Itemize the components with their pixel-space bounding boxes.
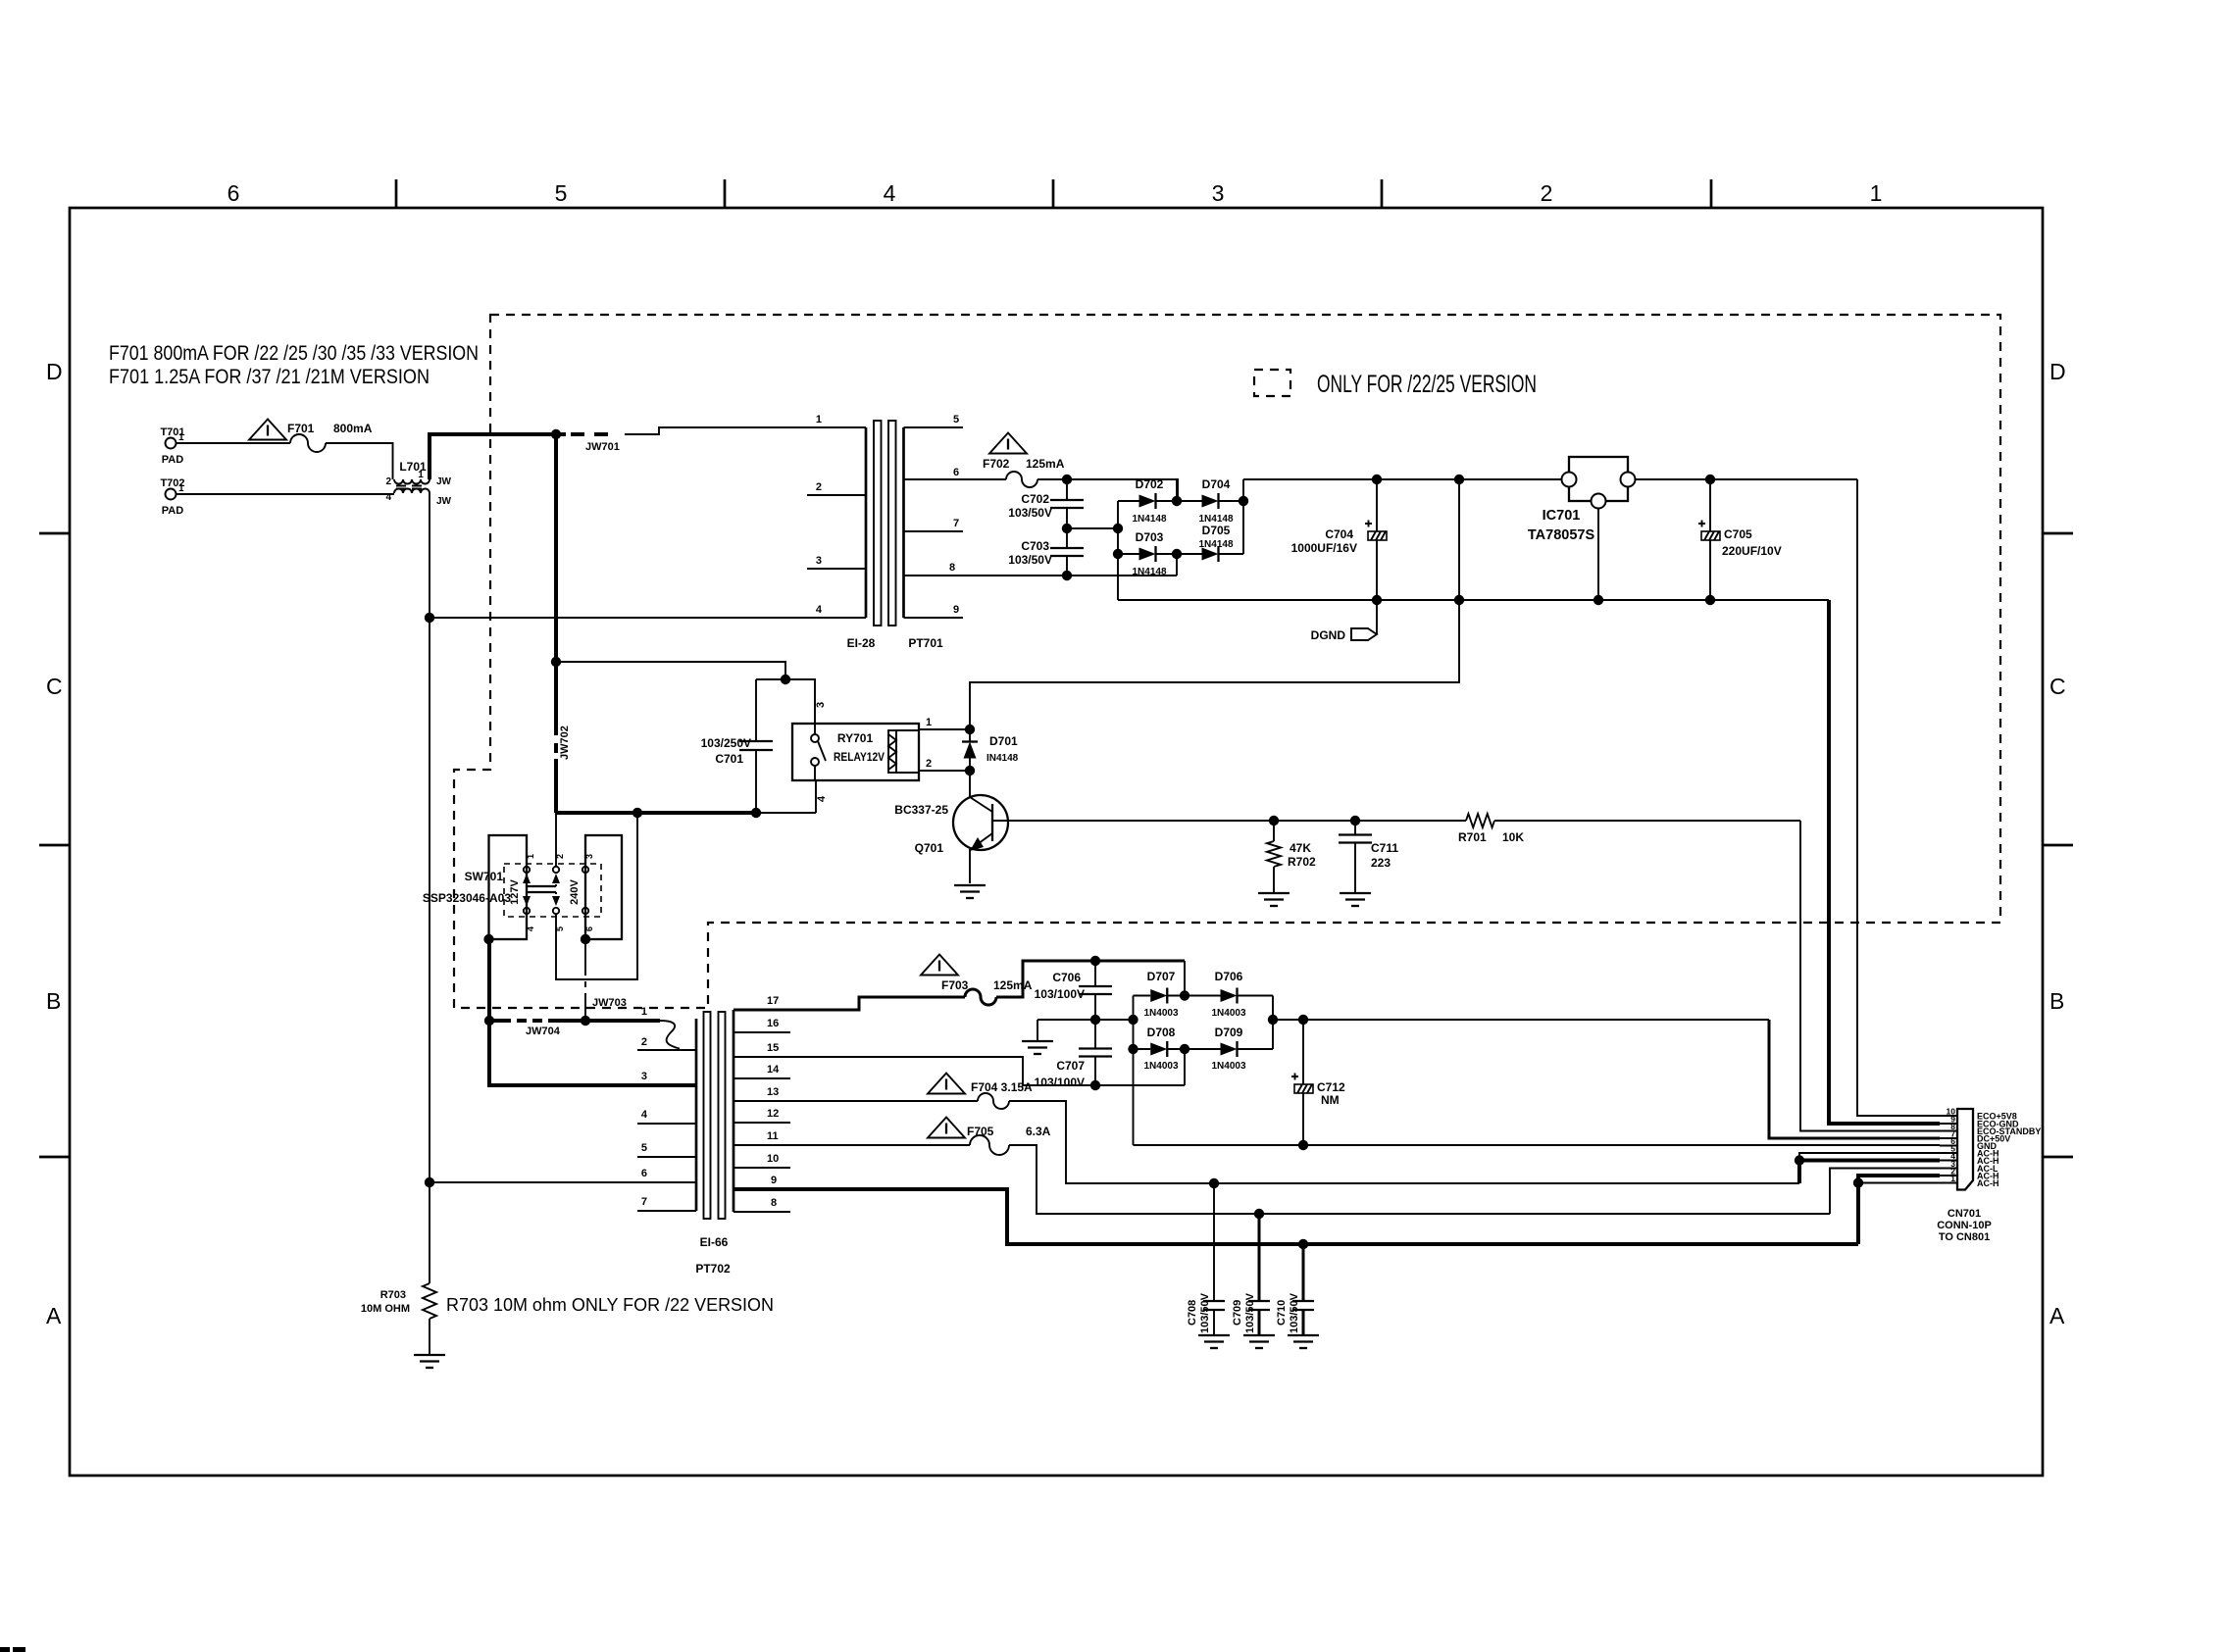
diode D701 — [962, 729, 1019, 771]
wire JW701 to PT701 pin1 — [625, 427, 866, 434]
PT702 pin 2 stub — [637, 1049, 696, 1051]
jumper JW701 — [571, 434, 620, 453]
ground below C711 — [1340, 893, 1371, 906]
capacitor C711 223 — [1339, 821, 1398, 893]
wire left rail down to R703 — [429, 1182, 430, 1283]
svg-text:1: 1 — [526, 854, 535, 859]
wire relay drive row (heavy) — [556, 811, 756, 815]
switch SW701 right loop — [585, 835, 622, 939]
resistor R703 10M — [361, 1283, 436, 1319]
wire ECO+5V8 vertical — [1857, 479, 1940, 1116]
capacitor C709 103/50V — [1232, 1214, 1270, 1335]
line filter L701 — [385, 460, 451, 507]
wire AC-H pin2 (heavy) — [1858, 1176, 1940, 1183]
svg-text:BC337-25: BC337-25 — [894, 803, 948, 817]
svg-text:AC-H: AC-H — [1977, 1178, 1999, 1188]
node C709 top — [1254, 1209, 1264, 1219]
wire AC-H down to row (heavy) — [1856, 1183, 1860, 1245]
wire IC701 output — [1636, 478, 1858, 480]
diode D703 — [1118, 530, 1177, 577]
node C706/C707 mid — [1090, 1015, 1100, 1025]
node C707 bottom — [1090, 1080, 1100, 1090]
node C703 bottom — [1062, 571, 1072, 580]
PT702 pin 5 stub — [637, 1156, 696, 1158]
node C702/C703 mid — [1062, 524, 1072, 533]
wire Q701 base row — [992, 820, 1466, 822]
transformer PT701 secondary winding line — [904, 414, 964, 618]
page corner printing marks — [0, 1647, 25, 1652]
node junction JW701/JW702 — [551, 429, 561, 439]
wire relay pin1 — [919, 717, 970, 729]
wire AC-L riser to pin3 — [1830, 1169, 1940, 1215]
pad T701 — [160, 426, 184, 466]
wire C701 to relay pin4 — [756, 812, 816, 814]
wire AC-H pin1 row — [1858, 1182, 1940, 1184]
svg-text:D703: D703 — [1136, 530, 1164, 544]
wire relay pin4 to AC row — [815, 780, 817, 813]
dashed box ONLY FOR /22/25 region outline — [454, 315, 2000, 1008]
svg-text:3: 3 — [584, 854, 594, 859]
regulator IC701 — [1528, 457, 1636, 543]
fuse F701 — [287, 422, 373, 452]
svg-text:9: 9 — [953, 604, 959, 616]
svg-text:4: 4 — [884, 180, 896, 206]
svg-text:JW704: JW704 — [526, 1026, 561, 1037]
svg-text:B: B — [2049, 988, 2064, 1014]
node C710 top — [1298, 1239, 1308, 1249]
SW701 labels — [423, 870, 511, 905]
svg-text:2: 2 — [555, 854, 565, 859]
node JW703/JW704 — [581, 1016, 590, 1026]
svg-text:240V: 240V — [569, 878, 581, 904]
wire D702 cathode up to pin6 rail — [1176, 479, 1178, 501]
diode D706 — [1185, 970, 1273, 1019]
svg-text:D: D — [2049, 359, 2066, 384]
svg-text:103/50V: 103/50V — [1244, 1292, 1256, 1333]
svg-text:5: 5 — [641, 1142, 647, 1154]
PT702 pin 7 stub — [637, 1210, 696, 1212]
wire D704 cathode up to output rail — [1242, 479, 1244, 554]
diode D704 — [1177, 477, 1243, 525]
svg-text:EI-66: EI-66 — [700, 1235, 729, 1249]
node C701/relay pin3 — [781, 675, 790, 684]
wire ECO-GND vertical (heavy) — [1829, 600, 1940, 1124]
wire F701 to L701 — [326, 443, 393, 479]
svg-text:5: 5 — [953, 414, 959, 426]
wire bridge left rail — [1117, 501, 1119, 600]
svg-text:2: 2 — [816, 481, 822, 493]
PT702 pin 8 stub — [734, 1211, 790, 1213]
wire PT702 pin6 row — [430, 1181, 696, 1183]
svg-text:2: 2 — [926, 758, 932, 770]
svg-text:103/50V: 103/50V — [1008, 506, 1052, 520]
svg-text:1N4003: 1N4003 — [1143, 1008, 1178, 1019]
svg-text:C702: C702 — [1021, 492, 1049, 506]
svg-text:A: A — [46, 1303, 62, 1328]
wire D707 cathode up — [1184, 961, 1186, 996]
node C705 top — [1705, 475, 1715, 484]
svg-text:10: 10 — [767, 1153, 779, 1165]
svg-text:F703: F703 — [941, 978, 969, 992]
capacitor C702 — [1008, 479, 1084, 528]
ground below R702 — [1258, 893, 1290, 906]
svg-text:4: 4 — [816, 604, 823, 616]
svg-text:C709: C709 — [1232, 1300, 1243, 1326]
svg-text:D707: D707 — [1147, 970, 1176, 983]
svg-text:17: 17 — [767, 995, 779, 1007]
svg-text:10M OHM: 10M OHM — [361, 1303, 410, 1315]
wire T702 to L701 — [177, 493, 394, 495]
svg-text:103/250V: 103/250V — [701, 736, 751, 750]
node SW701 pin6 JW703 — [581, 934, 590, 944]
wire +12V top rail — [1243, 478, 1561, 480]
diode D708 — [1134, 1026, 1186, 1072]
wire PT701 pin8 row — [904, 575, 1178, 576]
svg-text:3: 3 — [1212, 180, 1225, 206]
capacitor C706 — [1035, 961, 1112, 1020]
resistor R701 10K — [1458, 814, 1524, 844]
svg-text:223: 223 — [1371, 856, 1391, 870]
svg-text:2: 2 — [1541, 180, 1553, 206]
svg-text:10K: 10K — [1502, 830, 1524, 844]
svg-text:D704: D704 — [1202, 477, 1231, 491]
warning triangle F704 — [928, 1074, 965, 1094]
wire bridge right rail — [1272, 996, 1274, 1050]
node SW701 left bottom — [483, 934, 493, 944]
capacitor C707 — [1035, 1020, 1112, 1089]
svg-text:F701: F701 — [287, 422, 315, 435]
PT701 pin 2 stub — [807, 494, 866, 496]
svg-text:15: 15 — [767, 1042, 779, 1054]
svg-text:3: 3 — [815, 702, 827, 708]
svg-text:RELAY12V: RELAY12V — [834, 750, 885, 764]
wire AC-H pin4 row (heavy) — [1799, 1161, 1940, 1184]
wire junction to C701 and relay pin 3 — [756, 679, 815, 724]
svg-text:2: 2 — [385, 476, 391, 487]
diode D707 — [1134, 970, 1186, 1019]
PT701 pin 9 stub — [904, 617, 964, 619]
ground below Q701 — [954, 885, 986, 898]
legend dashed box — [1254, 370, 1290, 396]
transformer PT702 primary winding line — [637, 1006, 696, 1211]
svg-text:D705: D705 — [1202, 524, 1231, 537]
svg-text:1N4003: 1N4003 — [1211, 1061, 1245, 1072]
svg-text:RY701: RY701 — [837, 731, 874, 745]
diode D705 — [1177, 524, 1243, 562]
svg-text:16: 16 — [767, 1018, 779, 1029]
svg-text:TO CN801: TO CN801 — [1939, 1231, 1990, 1243]
wire F703 to bridge top rail — [996, 961, 1185, 997]
svg-text:1: 1 — [178, 483, 184, 494]
svg-text:6: 6 — [953, 467, 959, 478]
capacitor C703 — [1008, 528, 1084, 576]
capacitor C705 (electrolytic) — [1698, 479, 1782, 600]
PT702 pin 10 stub — [734, 1167, 790, 1169]
svg-text:D701: D701 — [989, 734, 1018, 748]
svg-text:CN701: CN701 — [1948, 1208, 1981, 1220]
svg-text:1000UF/16V: 1000UF/16V — [1291, 541, 1357, 555]
svg-text:2: 2 — [641, 1036, 647, 1048]
svg-text:125mA: 125mA — [993, 978, 1033, 992]
warning triangle F701 — [249, 420, 286, 440]
wire PT701 pin4 row — [430, 617, 866, 619]
SW701 contact arrows bottom — [523, 892, 560, 906]
PT702 pin 4 stub — [637, 1123, 696, 1125]
svg-text:C704: C704 — [1325, 527, 1353, 541]
svg-text:R701: R701 — [1458, 830, 1487, 844]
flag DGND — [1311, 600, 1377, 642]
wire IC701 gnd pin — [1597, 509, 1599, 601]
row labels D C B A — [46, 359, 2066, 1328]
fuse F703 — [941, 978, 1033, 1005]
svg-text:PT701: PT701 — [908, 636, 943, 650]
warning triangle F702 — [989, 433, 1027, 454]
wire PT702 pin15 to bridge lower rail — [734, 1057, 1185, 1085]
node C708 top — [1209, 1178, 1219, 1188]
svg-text:1: 1 — [816, 414, 822, 426]
svg-text:D709: D709 — [1215, 1026, 1243, 1039]
svg-text:C708: C708 — [1187, 1300, 1198, 1326]
wire F704 to AC-H row — [1009, 1101, 1799, 1183]
svg-text:F704 3.15A: F704 3.15A — [971, 1080, 1033, 1094]
svg-text:D706: D706 — [1215, 970, 1243, 983]
node AC-H pin1/pin2 — [1853, 1177, 1863, 1187]
node C712 bottom / gnd row — [1298, 1140, 1308, 1150]
switch SW701 left loop — [489, 835, 528, 939]
wire L701 bottom down left rail — [429, 493, 430, 1182]
ground below C710 — [1288, 1335, 1319, 1348]
svg-text:DGND: DGND — [1311, 628, 1346, 642]
wire ECO-STANDBY vertical — [1800, 821, 1940, 1131]
SW701 pin labels 1 2 3 — [526, 854, 594, 859]
column labels 6..1 — [228, 180, 1883, 206]
svg-text:R703 10M ohm ONLY FOR /22 VERS: R703 10M ohm ONLY FOR /22 VERSION — [446, 1294, 774, 1315]
wire relay pin2 — [919, 758, 970, 771]
svg-text:103/100V: 103/100V — [1035, 1076, 1085, 1089]
svg-text:103/50V: 103/50V — [1199, 1292, 1211, 1333]
node C704 top — [1372, 475, 1382, 484]
warning triangle F705 — [928, 1118, 965, 1138]
svg-text:7: 7 — [953, 518, 959, 529]
svg-text:1N4003: 1N4003 — [1211, 1008, 1245, 1019]
svg-text:125mA: 125mA — [1026, 457, 1065, 471]
svg-text:9: 9 — [771, 1175, 777, 1186]
note F701 ratings text — [109, 341, 479, 388]
svg-text:CONN-10P: CONN-10P — [1937, 1220, 1992, 1231]
svg-text:F701 1.25A FOR /37 /21 /21M V: F701 1.25A FOR /37 /21 /21M VERSION — [109, 365, 430, 388]
capacitor C710 103/50V — [1276, 1244, 1314, 1335]
svg-text:8: 8 — [949, 562, 955, 574]
wire PT702 pin9 to AC-H row (heavy) — [734, 1189, 1858, 1244]
wire GND row to CN701 pin6 — [1134, 1144, 1941, 1146]
CN701 net labels — [1977, 1112, 2041, 1189]
wire AC-H pin5 jog — [1799, 1153, 1940, 1161]
svg-text:1N4148: 1N4148 — [1132, 567, 1166, 577]
SW701 pin circles row 1-2-3 — [524, 867, 588, 873]
svg-text:1: 1 — [418, 470, 424, 480]
svg-text:1: 1 — [1950, 1174, 1955, 1183]
svg-text:JW703: JW703 — [592, 997, 627, 1009]
node C706 top — [1090, 956, 1100, 966]
PT702 pin 12 stub — [734, 1122, 790, 1124]
PT701 pin 7 stub — [904, 530, 964, 532]
svg-text:A: A — [2049, 1303, 2065, 1328]
ground below C709 — [1243, 1335, 1275, 1348]
svg-text:4: 4 — [641, 1109, 648, 1121]
diode D702 — [1118, 477, 1177, 525]
wire F705 to AC-L row — [1009, 1145, 1830, 1214]
svg-text:1: 1 — [1870, 180, 1883, 206]
svg-text:4: 4 — [526, 926, 535, 931]
resistor R702 47K — [1267, 821, 1316, 893]
node D701 feed — [1454, 475, 1464, 484]
wire bridge left rail to gnd row — [1133, 996, 1135, 1146]
svg-text:B: B — [46, 988, 61, 1014]
svg-text:13: 13 — [767, 1086, 779, 1098]
svg-text:7: 7 — [641, 1196, 647, 1208]
svg-text:C707: C707 — [1056, 1059, 1085, 1073]
PT702 pin 1 stub — [637, 1020, 660, 1022]
wire relay coil feed from top rail — [970, 479, 1459, 729]
SW701 contact arrows top — [523, 874, 560, 886]
fuse F704 — [971, 1080, 1033, 1109]
SW701 pin5 return path — [556, 813, 637, 979]
svg-text:5: 5 — [555, 180, 568, 206]
wire fuse to corner — [1037, 479, 1178, 501]
transformer PT701 primary winding line — [807, 414, 866, 618]
svg-text:R702: R702 — [1288, 855, 1316, 869]
svg-text:1: 1 — [641, 1006, 647, 1018]
capacitor C712 NM (electrolytic) — [1291, 1020, 1345, 1145]
ground below R703 — [414, 1355, 445, 1368]
svg-text:NM: NM — [1321, 1093, 1340, 1107]
svg-text:D: D — [46, 359, 63, 384]
svg-text:PAD: PAD — [162, 505, 183, 517]
node junction pin4 row — [425, 613, 434, 623]
node C702 top — [1062, 475, 1072, 484]
svg-text:47K: 47K — [1290, 841, 1311, 855]
svg-text:4: 4 — [816, 795, 828, 802]
svg-text:6: 6 — [641, 1168, 647, 1179]
transformer PT702 core — [704, 1012, 726, 1219]
svg-text:ONLY FOR /22/25 VERSION: ONLY FOR /22/25 VERSION — [1317, 371, 1537, 398]
svg-text:C: C — [2049, 674, 2066, 699]
CN701 pin stubs and numbers — [1940, 1107, 1957, 1184]
relay RY701 — [792, 702, 919, 802]
PT701 pin 5 stub — [904, 426, 964, 428]
svg-text:12: 12 — [767, 1108, 779, 1120]
svg-text:JW: JW — [436, 476, 452, 487]
svg-text:EI-28: EI-28 — [847, 636, 876, 650]
wire R703 to ground — [429, 1319, 430, 1355]
svg-text:14: 14 — [767, 1064, 780, 1076]
svg-text:C711: C711 — [1371, 841, 1398, 855]
fuse F705 — [967, 1125, 1051, 1155]
SW701 voltage labels — [509, 878, 581, 904]
svg-text:220UF/10V: 220UF/10V — [1722, 544, 1782, 558]
PT701 pin 3 stub — [807, 568, 866, 570]
jumper JW704 row — [489, 1021, 660, 1037]
svg-text:3: 3 — [816, 555, 822, 567]
svg-text:1N4148: 1N4148 — [1132, 514, 1166, 525]
node relay branch — [551, 657, 561, 667]
svg-text:C: C — [46, 674, 63, 699]
wire L701 top to JW701 junction (heavy) — [430, 434, 566, 479]
svg-text:C705: C705 — [1724, 527, 1752, 541]
transformer PT701 core — [874, 421, 896, 626]
svg-text:800mA: 800mA — [333, 422, 373, 435]
svg-text:103/50V: 103/50V — [1289, 1292, 1300, 1333]
SW701 pin 2 wire from JW702 — [555, 813, 557, 866]
warning triangle F703 — [921, 955, 958, 976]
svg-text:F701 800mA FOR /22 /25 /30 /35: F701 800mA FOR /22 /25 /30 /35 /33 VERSI… — [109, 341, 479, 365]
svg-text:11: 11 — [767, 1130, 779, 1142]
svg-text:D708: D708 — [1147, 1026, 1176, 1039]
svg-text:1N4003: 1N4003 — [1143, 1061, 1178, 1072]
svg-text:6: 6 — [228, 180, 240, 206]
wire T701 to F701 — [177, 442, 290, 444]
ground at bridge mid — [1022, 1020, 1053, 1054]
connector CN701 body — [1957, 1109, 1973, 1190]
svg-text:6.3A: 6.3A — [1026, 1125, 1051, 1138]
capacitor C708 103/50V — [1187, 1183, 1225, 1335]
svg-text:D702: D702 — [1136, 477, 1164, 491]
wire PT702 pin11 to F705 — [734, 1144, 970, 1146]
PT702 pin 16 stub — [734, 1031, 790, 1033]
svg-text:4: 4 — [385, 492, 391, 503]
svg-text:PAD: PAD — [162, 454, 183, 466]
svg-text:103/50V: 103/50V — [1008, 553, 1052, 567]
svg-text:SW701: SW701 — [465, 870, 504, 883]
wire SW701 left rail down — [487, 939, 491, 1021]
capacitor C704 (electrolytic) — [1291, 479, 1387, 600]
svg-text:PT702: PT702 — [695, 1262, 731, 1276]
wire mid junction to bridge left rail — [1067, 527, 1118, 529]
svg-text:R703: R703 — [380, 1289, 406, 1301]
ground below C708 — [1198, 1335, 1230, 1348]
jumper JW702 vertical — [556, 434, 571, 813]
svg-text:C703: C703 — [1021, 539, 1049, 553]
svg-text:127V: 127V — [509, 878, 521, 904]
wire SW701 to PT702 pin3 — [489, 1021, 696, 1085]
wire DC+50V output row — [1273, 1019, 1769, 1021]
transistor Q701 BC337-25 — [894, 771, 1008, 883]
svg-text:JW701: JW701 — [585, 441, 620, 453]
svg-text:1: 1 — [178, 432, 184, 443]
wire mid gnd rail — [1037, 1019, 1134, 1021]
svg-text:F705: F705 — [967, 1125, 994, 1138]
diode D709 — [1185, 1026, 1273, 1072]
svg-text:103/100V: 103/100V — [1035, 987, 1085, 1001]
jumper JW703 vertical — [585, 914, 627, 1021]
svg-text:1N4148: 1N4148 — [1198, 539, 1233, 550]
node JW704 left — [484, 1016, 494, 1026]
wire R701 to ECO-STANDBY vertical — [1494, 820, 1800, 822]
svg-text:IC701: IC701 — [1543, 508, 1581, 524]
SW701 pin circles row 4-5-6 — [524, 908, 588, 914]
svg-text:1: 1 — [926, 717, 932, 728]
svg-text:8: 8 — [771, 1197, 777, 1209]
svg-text:C712: C712 — [1317, 1080, 1345, 1094]
wire DC+50V vertical (heavy) — [1769, 1020, 1940, 1138]
SW701 127V bars — [527, 886, 556, 892]
pad T702 — [160, 477, 184, 517]
node AC-H pin4/pin5 — [1795, 1155, 1804, 1165]
wire PT702 pin1 S-hop to pin2 — [660, 1021, 680, 1049]
svg-text:3: 3 — [641, 1071, 647, 1082]
svg-text:C706: C706 — [1052, 971, 1081, 984]
svg-text:C701: C701 — [715, 752, 743, 766]
